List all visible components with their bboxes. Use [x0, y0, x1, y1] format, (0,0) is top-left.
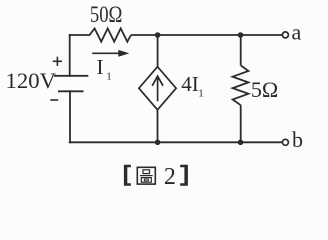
wire top rail left segment	[70, 34, 90, 36]
label 4I1	[181, 72, 204, 99]
svg-text:a: a	[292, 20, 302, 45]
current arrow I1	[92, 50, 129, 57]
wire left branch upper (to battery top plate)	[69, 35, 71, 76]
resistor 50Ω zigzag	[90, 28, 132, 41]
resistor 5Ω zigzag	[233, 65, 249, 105]
svg-text:I: I	[97, 55, 104, 79]
wire left branch lower	[69, 91, 71, 142]
svg-text:4I: 4I	[181, 72, 199, 96]
battery V1 bottom plate	[58, 90, 84, 92]
svg-text:50Ω: 50Ω	[90, 2, 123, 27]
caption right lenticular bracket	[180, 165, 188, 186]
battery V1 top plate	[54, 75, 88, 77]
wire 5Ω branch upper	[240, 35, 242, 65]
node junction dot bottom-right (5Ω branch)	[238, 140, 244, 146]
caption glyph 圖 (figure)	[137, 167, 155, 184]
node junction dot top-left (cs branch)	[155, 32, 161, 38]
battery plus sign	[53, 57, 62, 66]
wire cs branch upper	[157, 35, 159, 68]
svg-text:5Ω: 5Ω	[251, 77, 278, 102]
svg-text:1: 1	[106, 70, 112, 82]
label I1	[97, 55, 112, 82]
caption left lenticular bracket	[124, 165, 131, 186]
svg-text:120V: 120V	[6, 68, 57, 93]
terminal a circle	[282, 32, 288, 38]
wire 5Ω branch lower	[240, 105, 242, 142]
svg-text:1: 1	[198, 88, 204, 100]
terminal b circle	[282, 139, 288, 145]
battery minus sign	[50, 99, 58, 101]
node junction dot top-right (5Ω branch)	[238, 32, 244, 38]
wire top rail right segment to terminal a	[131, 34, 282, 36]
wire cs branch lower	[157, 110, 159, 143]
svg-text:b: b	[292, 127, 303, 152]
node junction dot bottom-left (cs branch)	[155, 140, 161, 146]
wire bottom rail	[70, 141, 283, 143]
svg-text:2: 2	[164, 164, 176, 190]
current source arrow (upward)	[152, 76, 163, 101]
dependent current source 4I1 diamond	[139, 67, 176, 110]
